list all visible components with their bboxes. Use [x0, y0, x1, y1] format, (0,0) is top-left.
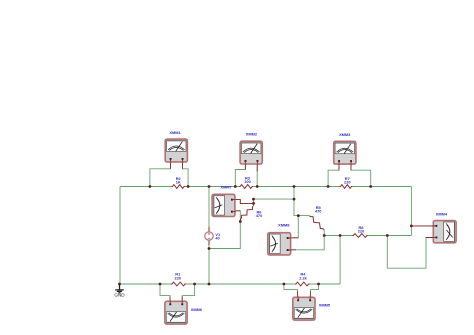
svg-text:100: 100	[244, 179, 251, 184]
svg-text:XMM6: XMM6	[191, 307, 203, 312]
svg-text:XMM7: XMM7	[220, 184, 231, 189]
svg-text:XMM5: XMM5	[319, 302, 331, 307]
svg-text:1K: 1K	[176, 180, 181, 185]
svg-text:GND: GND	[114, 293, 125, 298]
svg-text:XMM4: XMM4	[436, 211, 448, 216]
svg-text:XMM3: XMM3	[339, 132, 351, 137]
svg-text:2.2k: 2.2k	[299, 275, 307, 280]
svg-text:XMM1: XMM1	[169, 130, 181, 135]
svg-text:XMM8: XMM8	[278, 223, 290, 228]
svg-text:470: 470	[315, 209, 322, 214]
svg-text:470: 470	[256, 213, 263, 218]
svg-text:40: 40	[215, 235, 219, 240]
svg-text:220: 220	[344, 180, 351, 185]
svg-text:220: 220	[175, 275, 182, 280]
svg-text:220: 220	[358, 228, 365, 233]
svg-text:XMM2: XMM2	[246, 131, 258, 136]
